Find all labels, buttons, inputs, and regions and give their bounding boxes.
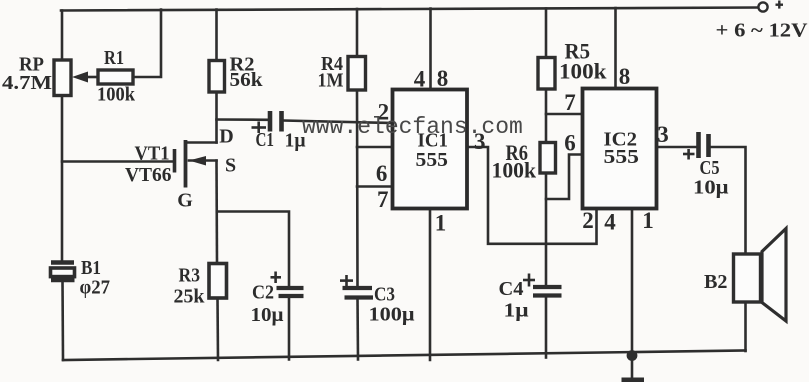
resistor R3 xyxy=(209,264,227,299)
svg-text:C2: C2 xyxy=(252,282,274,304)
svg-text:C3: C3 xyxy=(374,284,395,306)
svg-text:1M: 1M xyxy=(318,70,344,92)
svg-text:10μ: 10μ xyxy=(693,177,729,199)
plus mark C2 xyxy=(271,272,282,284)
wire bottom ground rail xyxy=(63,351,746,361)
svg-text:25k: 25k xyxy=(174,286,206,308)
svg-text:7: 7 xyxy=(377,187,389,212)
wire speaker bottom to ground rail xyxy=(744,302,747,351)
wire C5 right lead to speaker xyxy=(711,147,746,254)
plus mark C1 xyxy=(252,122,267,134)
resistor R6 xyxy=(540,143,556,174)
capacitor C3 plates xyxy=(343,286,373,290)
svg-text:1μ: 1μ xyxy=(504,300,530,322)
wire R3 bottom to ground rail xyxy=(216,298,219,361)
svg-text:8: 8 xyxy=(619,64,631,89)
wire IC2 pin 3 to C5 xyxy=(657,146,697,149)
wire left vertical upper (rail to RP) xyxy=(61,11,64,62)
svg-text:φ27: φ27 xyxy=(80,277,111,299)
wire R5 bottom to R6 top xyxy=(545,89,548,142)
svg-text:VT66: VT66 xyxy=(125,164,172,186)
plus mark C5 xyxy=(683,149,695,160)
wire IC2 pin 8 to rail xyxy=(614,8,617,89)
wire IC2 pin 7 stub xyxy=(546,113,583,116)
capacitor C2 plates xyxy=(277,286,304,290)
wire source down to R3 node xyxy=(215,161,218,265)
plus mark C4 xyxy=(523,274,535,287)
wire R5 top lead from rail xyxy=(545,9,548,59)
svg-text:C1: C1 xyxy=(256,129,275,151)
wire C3 bottom to ground rail xyxy=(356,298,359,360)
piezo element B1 disc xyxy=(51,268,75,277)
potentiometer RP xyxy=(54,60,71,96)
resistor R4 xyxy=(348,57,366,91)
speaker B2 driver xyxy=(734,254,761,302)
svg-text:R1: R1 xyxy=(104,47,124,69)
ground symbol xyxy=(622,378,645,382)
wire top supply rail xyxy=(61,8,758,11)
svg-text:2: 2 xyxy=(582,208,594,233)
resistor R5 xyxy=(538,58,555,90)
plus mark C3 xyxy=(340,275,353,287)
wire RP bottom to B1 top xyxy=(61,95,64,261)
wire IC1 pin 3 to IC2 pins 2 4 xyxy=(467,147,597,244)
svg-text:100μ: 100μ xyxy=(369,304,416,326)
speaker B2 cone xyxy=(762,229,786,322)
junction dot ground node xyxy=(627,350,638,361)
capacitor C4 plates xyxy=(533,285,562,289)
svg-text:555: 555 xyxy=(604,146,640,168)
wire IC1 pin 7 stub xyxy=(357,185,393,188)
wire R1 right lead and riser to rail xyxy=(133,10,161,78)
svg-text:555: 555 xyxy=(416,149,449,171)
wire IC2 pin 6 path xyxy=(546,155,583,200)
svg-text:100k: 100k xyxy=(559,59,607,84)
svg-text:4: 4 xyxy=(414,67,426,92)
svg-text:R3: R3 xyxy=(179,265,201,287)
wire R4 top lead from rail xyxy=(356,9,359,57)
transistor VT1 gate bar xyxy=(173,149,177,173)
wire IC2 pin 1 to ground junction xyxy=(631,209,634,357)
transistor VT1 channel bar xyxy=(184,140,188,188)
op-amp IC2 555 box xyxy=(583,89,657,209)
svg-text:100k: 100k xyxy=(97,84,136,106)
svg-text:+ 6 ~ 12V: + 6 ~ 12V xyxy=(716,20,809,42)
wire IC1 pin 1 to ground rail xyxy=(429,208,432,360)
wire ground stub xyxy=(631,356,634,377)
wire source S to channel xyxy=(189,159,217,162)
wire R4 bottom long vertical to C3 xyxy=(356,90,359,287)
wire C4 bottom to ground rail xyxy=(545,297,548,358)
capacitor C5 plates xyxy=(696,132,701,158)
svg-text:4: 4 xyxy=(604,210,616,235)
svg-text:1: 1 xyxy=(435,211,447,236)
svg-text:C4: C4 xyxy=(499,278,524,300)
svg-text:6: 6 xyxy=(564,131,576,156)
wire IC1 pin 6 stub xyxy=(357,146,393,149)
svg-text:www.elecfans.com: www.elecfans.com xyxy=(302,114,523,140)
wire drain D to channel xyxy=(186,141,217,144)
piezo element B1 top plate xyxy=(51,260,74,264)
wire R1 left lead toward RP wiper xyxy=(86,76,98,79)
wire IC1 pins 4 8 to rail xyxy=(429,9,432,91)
capacitor C1 plates xyxy=(268,111,273,132)
svg-text:VT1: VT1 xyxy=(135,143,170,165)
svg-text:8: 8 xyxy=(437,66,449,91)
wire R6 bottom to C4 xyxy=(545,173,548,285)
piezo element B1 bottom plate xyxy=(51,278,75,282)
wire R2 bottom to drain junction xyxy=(215,92,218,143)
svg-text:10μ: 10μ xyxy=(251,304,285,326)
wire node to C2 branch xyxy=(217,212,289,287)
transistor VT1 source arrow xyxy=(189,156,206,166)
RP wiper arrow xyxy=(72,72,88,83)
resistor R2 xyxy=(209,61,225,93)
resistor R1 xyxy=(98,70,133,84)
battery terminal circle xyxy=(758,2,767,11)
wire C1 right lead to IC1 pin 2 xyxy=(284,121,393,124)
svg-text:6: 6 xyxy=(376,161,388,186)
svg-text:100k: 100k xyxy=(492,158,537,183)
op-amp IC1 555 box xyxy=(393,90,468,209)
svg-text:B2: B2 xyxy=(704,271,728,293)
wire C2 bottom to ground rail xyxy=(288,297,291,360)
svg-text:S: S xyxy=(225,155,236,177)
terminal plus sign xyxy=(776,1,784,9)
wire B1 bottom to ground rail xyxy=(61,281,64,360)
wire C1 left lead from R2 line xyxy=(217,118,268,121)
svg-text:56k: 56k xyxy=(230,69,264,91)
svg-text:3: 3 xyxy=(657,122,669,147)
svg-text:G: G xyxy=(177,190,193,212)
svg-text:7: 7 xyxy=(564,90,576,115)
svg-text:1: 1 xyxy=(642,208,654,233)
svg-text:4.7M: 4.7M xyxy=(2,72,52,94)
wire gate branch to VT1 xyxy=(62,160,174,163)
svg-text:D: D xyxy=(219,126,233,148)
wire R2 top lead from rail xyxy=(215,10,218,62)
